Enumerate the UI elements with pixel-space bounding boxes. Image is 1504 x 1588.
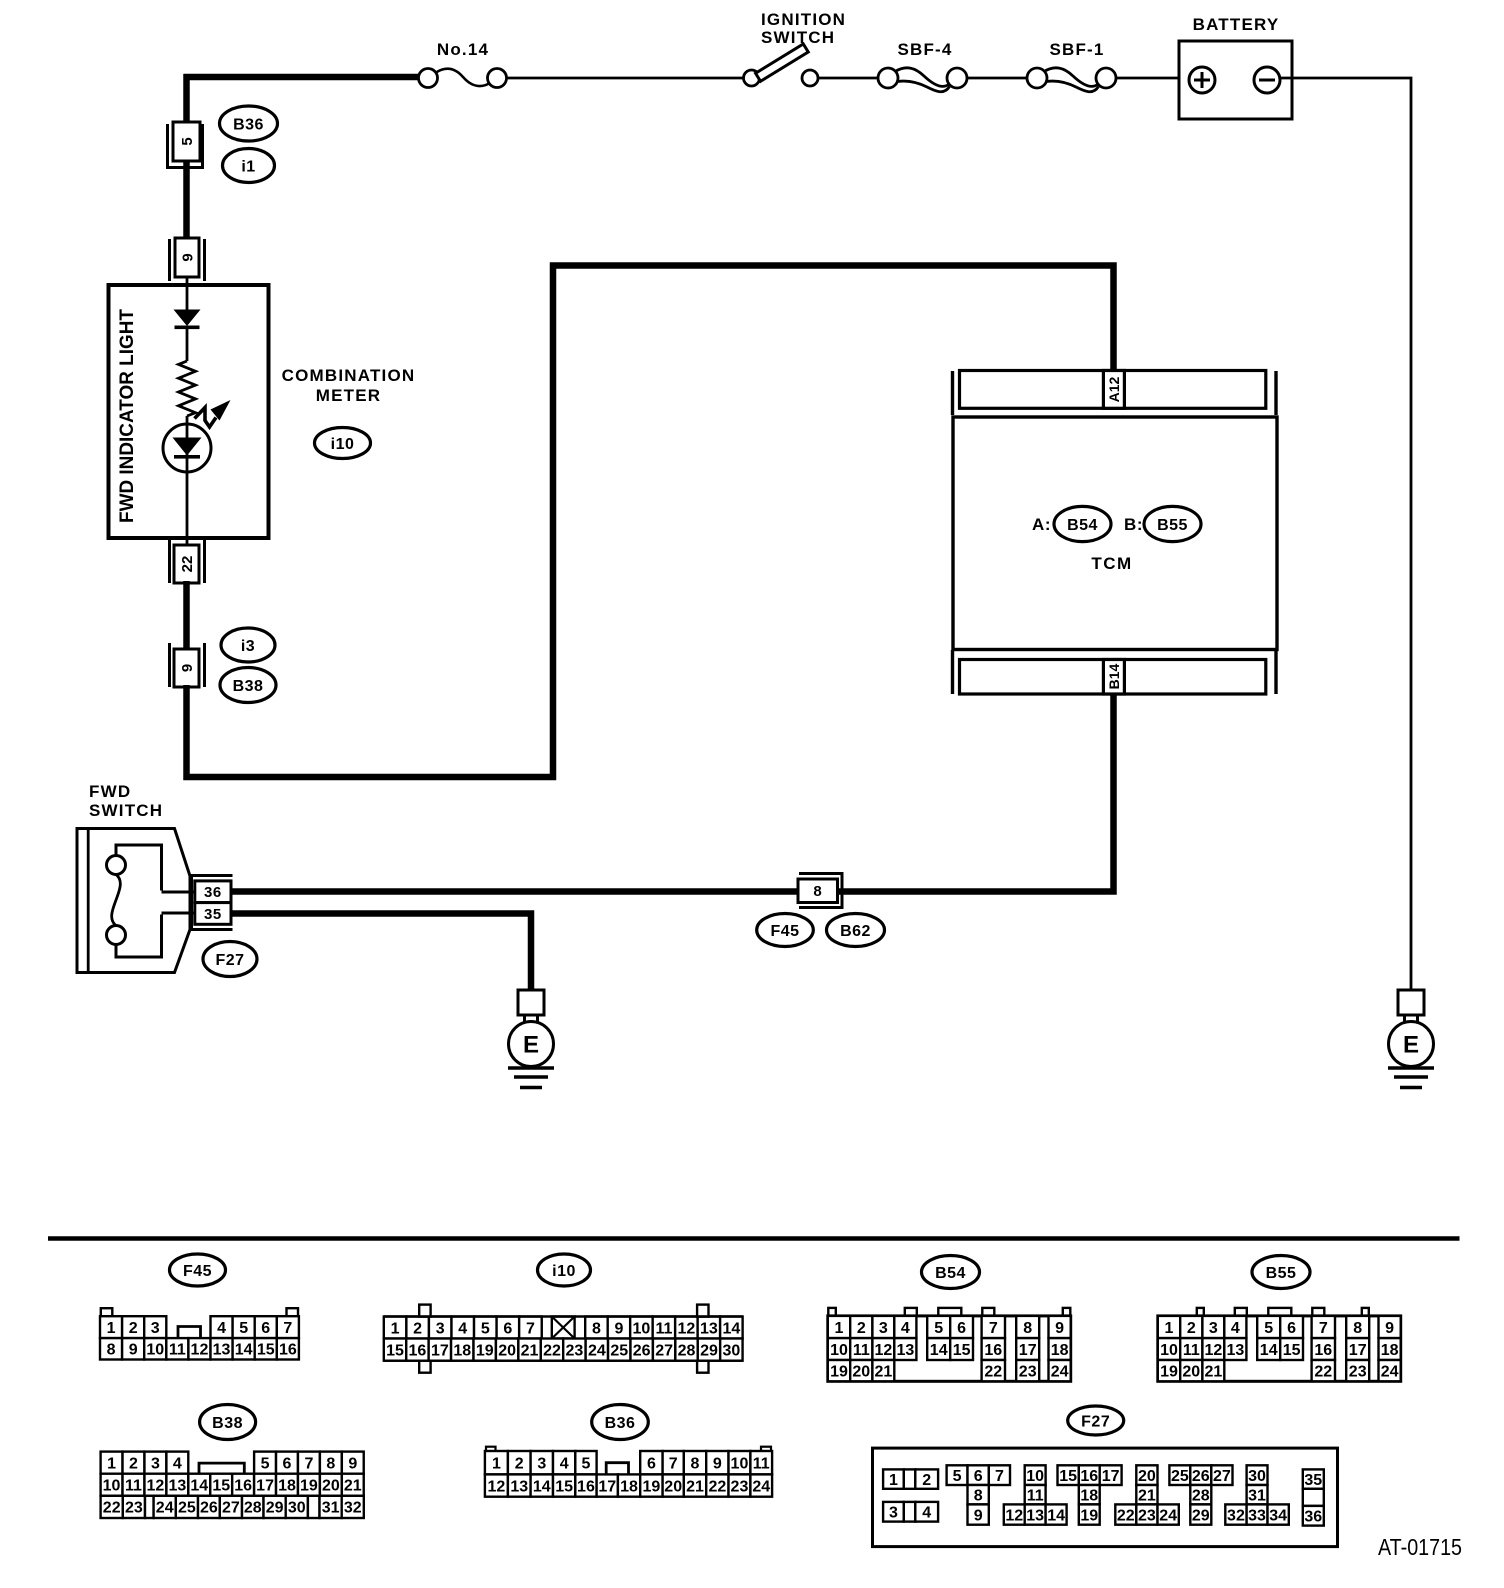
svg-text:12: 12 xyxy=(488,1478,506,1495)
connector label B36 xyxy=(220,106,278,141)
svg-text:14: 14 xyxy=(722,1320,740,1337)
svg-text:21: 21 xyxy=(344,1478,362,1495)
wire: SBF-1 to battery positive xyxy=(1116,77,1190,80)
svg-text:26: 26 xyxy=(1192,1468,1210,1485)
svg-text:12: 12 xyxy=(191,1342,209,1359)
svg-text:7: 7 xyxy=(995,1468,1004,1485)
svg-text:4: 4 xyxy=(1231,1320,1240,1337)
svg-text:16: 16 xyxy=(279,1342,297,1359)
svg-text:28: 28 xyxy=(678,1342,696,1359)
svg-text:20: 20 xyxy=(664,1478,682,1495)
svg-text:2: 2 xyxy=(129,1320,138,1337)
svg-text:COMBINATION: COMBINATION xyxy=(282,366,416,385)
svg-text:22: 22 xyxy=(543,1342,561,1359)
connector pinout B36 xyxy=(485,1447,772,1497)
svg-text:B38: B38 xyxy=(233,678,264,695)
svg-text:23: 23 xyxy=(1138,1507,1156,1524)
svg-text:15: 15 xyxy=(1283,1342,1301,1359)
svg-text:6: 6 xyxy=(283,1455,292,1472)
svg-text:20: 20 xyxy=(852,1363,870,1380)
svg-text:15: 15 xyxy=(1059,1468,1077,1485)
svg-text:18: 18 xyxy=(278,1478,296,1495)
svg-text:11: 11 xyxy=(853,1342,870,1359)
connector label B38 (pinout) xyxy=(200,1405,256,1440)
FWD switch xyxy=(77,782,195,972)
svg-text:15: 15 xyxy=(212,1478,230,1495)
svg-text:11: 11 xyxy=(753,1455,770,1472)
svg-text:29: 29 xyxy=(700,1342,718,1359)
svg-text:6: 6 xyxy=(261,1320,270,1337)
TCM box xyxy=(953,417,1277,650)
connector pinout B38 xyxy=(101,1452,364,1518)
svg-text:i3: i3 xyxy=(241,638,255,655)
svg-text:11: 11 xyxy=(125,1478,142,1495)
wire xyxy=(186,416,189,537)
svg-text:3: 3 xyxy=(879,1320,888,1337)
svg-text:3: 3 xyxy=(151,1455,160,1472)
svg-text:18: 18 xyxy=(1051,1342,1069,1359)
svg-text:4: 4 xyxy=(922,1505,931,1522)
svg-text:FWD INDICATOR LIGHT: FWD INDICATOR LIGHT xyxy=(117,309,138,523)
svg-text:A:: A: xyxy=(1032,515,1051,534)
svg-text:B62: B62 xyxy=(840,923,871,940)
svg-text:32: 32 xyxy=(344,1500,362,1517)
TCM connector strip A12 xyxy=(953,371,1277,416)
connector 9 (combination meter inlet) xyxy=(170,238,205,285)
svg-text:21: 21 xyxy=(1204,1363,1222,1380)
wire: TCM B14 to FWD switch pin 36 xyxy=(232,693,1114,892)
svg-text:FWD: FWD xyxy=(89,782,131,801)
svg-text:17: 17 xyxy=(598,1478,616,1495)
svg-text:22: 22 xyxy=(179,556,196,573)
svg-text:TCM: TCM xyxy=(1091,554,1132,573)
svg-text:8: 8 xyxy=(1023,1320,1032,1337)
svg-text:27: 27 xyxy=(655,1342,673,1359)
svg-text:F27: F27 xyxy=(215,952,244,969)
svg-text:9: 9 xyxy=(129,1342,138,1359)
svg-text:28: 28 xyxy=(244,1500,262,1517)
ground E (battery side) xyxy=(1388,990,1434,1088)
svg-text:F45: F45 xyxy=(183,1263,212,1280)
svg-text:30: 30 xyxy=(288,1500,306,1517)
svg-text:17: 17 xyxy=(1019,1342,1037,1359)
connector label i1 xyxy=(223,149,275,183)
connector 22 (meter outlet) xyxy=(170,538,205,583)
svg-text:15: 15 xyxy=(555,1478,573,1495)
connector 5 (B36 / i1 joint) xyxy=(166,122,204,169)
svg-text:16: 16 xyxy=(984,1342,1002,1359)
svg-text:18: 18 xyxy=(453,1342,471,1359)
svg-text:24: 24 xyxy=(1051,1363,1069,1380)
svg-text:10: 10 xyxy=(1160,1342,1178,1359)
wire: pin 35 to ground xyxy=(232,914,531,991)
svg-text:29: 29 xyxy=(1192,1507,1210,1524)
svg-text:11: 11 xyxy=(1183,1342,1200,1359)
svg-text:22: 22 xyxy=(1117,1507,1135,1524)
svg-text:7: 7 xyxy=(283,1320,292,1337)
svg-text:14: 14 xyxy=(235,1342,253,1359)
contact wavy link xyxy=(112,875,121,926)
svg-text:AT-01715: AT-01715 xyxy=(1378,1534,1462,1560)
connector label F27 (pinout) xyxy=(1068,1406,1124,1435)
svg-text:1: 1 xyxy=(1165,1320,1174,1337)
wire inside meter xyxy=(186,285,189,311)
svg-text:B54: B54 xyxy=(935,1265,966,1282)
svg-text:23: 23 xyxy=(566,1342,584,1359)
svg-text:27: 27 xyxy=(222,1500,240,1517)
separator line xyxy=(48,1236,1460,1241)
svg-text:10: 10 xyxy=(1026,1468,1044,1485)
fusible link SBF-1 xyxy=(1027,40,1116,92)
svg-text:15: 15 xyxy=(953,1342,971,1359)
svg-text:7: 7 xyxy=(669,1455,678,1472)
svg-text:10: 10 xyxy=(830,1342,848,1359)
svg-text:2: 2 xyxy=(515,1455,524,1472)
svg-text:3: 3 xyxy=(889,1505,898,1522)
svg-text:i10: i10 xyxy=(552,1263,576,1280)
svg-text:i1: i1 xyxy=(241,158,255,175)
svg-text:18: 18 xyxy=(1080,1487,1098,1504)
svg-text:24: 24 xyxy=(588,1342,606,1359)
svg-text:1: 1 xyxy=(889,1472,898,1489)
svg-text:E: E xyxy=(523,1032,539,1059)
svg-text:8: 8 xyxy=(1353,1320,1362,1337)
svg-text:6: 6 xyxy=(647,1455,656,1472)
svg-text:16: 16 xyxy=(1080,1468,1098,1485)
wire xyxy=(186,329,189,361)
svg-text:9: 9 xyxy=(179,664,196,672)
svg-text:19: 19 xyxy=(643,1478,661,1495)
svg-text:20: 20 xyxy=(498,1342,516,1359)
svg-text:B55: B55 xyxy=(1266,1265,1297,1282)
fuse No.14 xyxy=(419,40,507,88)
svg-text:2: 2 xyxy=(129,1455,138,1472)
svg-text:14: 14 xyxy=(190,1478,208,1495)
svg-text:7: 7 xyxy=(304,1455,313,1472)
wire: battery feed horizontal (junction to fuse No.14) xyxy=(184,74,420,81)
connector 9 (B38 / i3 joint) xyxy=(170,643,205,687)
wire: battery negative to ground xyxy=(1280,78,1411,990)
svg-text:1: 1 xyxy=(492,1455,501,1472)
svg-text:B36: B36 xyxy=(233,116,264,133)
FWD indicator lamp (LED) xyxy=(163,424,211,472)
fusible link SBF-4 xyxy=(878,40,967,92)
connector pinout B55 xyxy=(1158,1308,1401,1381)
svg-text:5: 5 xyxy=(953,1468,962,1485)
svg-text:29: 29 xyxy=(266,1500,284,1517)
svg-text:17: 17 xyxy=(431,1342,449,1359)
svg-text:1: 1 xyxy=(107,1455,116,1472)
svg-text:36: 36 xyxy=(204,884,222,901)
svg-text:18: 18 xyxy=(1381,1342,1399,1359)
svg-text:21: 21 xyxy=(686,1478,704,1495)
svg-text:6: 6 xyxy=(503,1320,512,1337)
switch output prongs xyxy=(162,891,196,894)
svg-text:31: 31 xyxy=(322,1500,340,1517)
connector 8 (F45 / B62 joint) xyxy=(798,872,844,909)
svg-text:25: 25 xyxy=(178,1500,196,1517)
wire: connector 22 to connector 9 (B38/i3) xyxy=(183,581,190,650)
svg-text:19: 19 xyxy=(300,1478,318,1495)
svg-text:16: 16 xyxy=(1314,1342,1332,1359)
svg-text:11: 11 xyxy=(169,1342,186,1359)
svg-text:8: 8 xyxy=(974,1487,983,1504)
svg-text:4: 4 xyxy=(458,1320,467,1337)
svg-text:35: 35 xyxy=(204,906,222,923)
svg-text:33: 33 xyxy=(1248,1507,1266,1524)
svg-text:25: 25 xyxy=(610,1342,628,1359)
svg-text:16: 16 xyxy=(409,1342,427,1359)
battery xyxy=(1179,15,1292,119)
connector label B36 (pinout) xyxy=(592,1405,649,1440)
svg-text:24: 24 xyxy=(1159,1507,1177,1524)
svg-text:6: 6 xyxy=(1287,1320,1296,1337)
svg-text:8: 8 xyxy=(813,883,821,900)
svg-text:19: 19 xyxy=(1160,1363,1178,1380)
svg-text:1: 1 xyxy=(107,1320,116,1337)
svg-text:13: 13 xyxy=(700,1320,718,1337)
svg-text:12: 12 xyxy=(1005,1507,1023,1524)
svg-text:6: 6 xyxy=(957,1320,966,1337)
svg-text:30: 30 xyxy=(1248,1468,1266,1485)
connector pinout i10 xyxy=(384,1305,743,1373)
diode xyxy=(174,310,201,330)
svg-text:METER: METER xyxy=(316,386,382,405)
wire: ignition switch to SBF-4 xyxy=(818,77,878,80)
connector label i10 xyxy=(315,428,371,459)
wire: SBF-4 to SBF-1 xyxy=(967,77,1027,80)
svg-text:17: 17 xyxy=(1349,1342,1367,1359)
svg-text:15: 15 xyxy=(386,1342,404,1359)
svg-text:15: 15 xyxy=(257,1342,275,1359)
connector label B62 xyxy=(827,914,885,947)
svg-text:1: 1 xyxy=(391,1320,400,1337)
svg-text:8: 8 xyxy=(326,1455,335,1472)
svg-text:3: 3 xyxy=(537,1455,546,1472)
svg-text:31: 31 xyxy=(1248,1487,1266,1504)
svg-text:7: 7 xyxy=(526,1320,535,1337)
wire: meter loop to TCM A12 xyxy=(187,266,1114,778)
wire: connector 5 to connector 9 xyxy=(183,161,190,239)
svg-text:10: 10 xyxy=(103,1478,121,1495)
wire: vertical drop to connector 5 xyxy=(183,74,190,123)
svg-text:26: 26 xyxy=(633,1342,651,1359)
svg-text:10: 10 xyxy=(633,1320,651,1337)
combination meter box xyxy=(109,285,269,538)
svg-text:16: 16 xyxy=(577,1478,595,1495)
svg-text:5: 5 xyxy=(179,137,196,145)
svg-text:13: 13 xyxy=(213,1342,231,1359)
svg-text:25: 25 xyxy=(1171,1468,1189,1485)
svg-text:5: 5 xyxy=(1264,1320,1273,1337)
svg-text:12: 12 xyxy=(874,1342,892,1359)
svg-text:F27: F27 xyxy=(1081,1413,1110,1430)
svg-text:18: 18 xyxy=(620,1478,638,1495)
svg-text:E: E xyxy=(1403,1032,1419,1059)
svg-text:10: 10 xyxy=(146,1342,164,1359)
connector pinout F27 xyxy=(873,1448,1338,1547)
svg-text:B36: B36 xyxy=(605,1415,636,1432)
connector label F45 xyxy=(757,914,814,947)
svg-text:13: 13 xyxy=(896,1342,914,1359)
connector label B55 (pinout) xyxy=(1252,1256,1310,1289)
ground E (FWD switch side) xyxy=(508,990,554,1088)
wire: fuse No.14 to ignition switch xyxy=(507,77,744,80)
svg-text:SWITCH: SWITCH xyxy=(761,28,835,47)
svg-text:11: 11 xyxy=(1027,1487,1044,1504)
svg-text:19: 19 xyxy=(476,1342,494,1359)
svg-text:22: 22 xyxy=(984,1363,1002,1380)
svg-text:3: 3 xyxy=(436,1320,445,1337)
svg-text:B38: B38 xyxy=(212,1415,243,1432)
connector label B38 xyxy=(220,668,276,703)
svg-text:4: 4 xyxy=(173,1455,182,1472)
svg-text:23: 23 xyxy=(125,1500,143,1517)
svg-text:24: 24 xyxy=(752,1478,770,1495)
svg-text:14: 14 xyxy=(1260,1342,1278,1359)
connector pinout F45 xyxy=(100,1308,299,1359)
svg-text:3: 3 xyxy=(151,1320,160,1337)
svg-text:7: 7 xyxy=(1319,1320,1328,1337)
svg-text:22: 22 xyxy=(708,1478,726,1495)
svg-text:21: 21 xyxy=(521,1342,539,1359)
svg-text:3: 3 xyxy=(1209,1320,1218,1337)
svg-text:17: 17 xyxy=(256,1478,274,1495)
ignition switch xyxy=(744,10,847,86)
svg-text:2: 2 xyxy=(413,1320,422,1337)
contact circle upper xyxy=(107,856,126,875)
svg-text:13: 13 xyxy=(168,1478,186,1495)
svg-text:No.14: No.14 xyxy=(437,40,489,59)
svg-text:5: 5 xyxy=(261,1455,270,1472)
svg-text:20: 20 xyxy=(1138,1468,1156,1485)
svg-text:23: 23 xyxy=(731,1478,749,1495)
svg-text:10: 10 xyxy=(731,1455,749,1472)
svg-text:B14: B14 xyxy=(1106,663,1122,689)
svg-text:B:: B: xyxy=(1124,515,1143,534)
connector label F45 (pinout) xyxy=(170,1254,226,1286)
svg-text:F45: F45 xyxy=(770,923,799,940)
svg-text:8: 8 xyxy=(691,1455,700,1472)
svg-text:SWITCH: SWITCH xyxy=(89,801,163,820)
svg-text:5: 5 xyxy=(934,1320,943,1337)
connector pinout B54 xyxy=(828,1308,1071,1381)
svg-text:9: 9 xyxy=(1055,1320,1064,1337)
connector label F27 xyxy=(203,942,257,977)
svg-text:14: 14 xyxy=(930,1342,948,1359)
svg-text:34: 34 xyxy=(1269,1507,1287,1524)
svg-text:9: 9 xyxy=(713,1455,722,1472)
svg-text:4: 4 xyxy=(217,1320,226,1337)
svg-text:B55: B55 xyxy=(1157,517,1188,534)
resistor xyxy=(179,361,196,416)
svg-text:21: 21 xyxy=(1138,1487,1156,1504)
svg-text:12: 12 xyxy=(677,1320,695,1337)
svg-text:1: 1 xyxy=(835,1320,844,1337)
svg-text:24: 24 xyxy=(156,1500,174,1517)
svg-text:SBF-4: SBF-4 xyxy=(897,40,952,59)
svg-text:24: 24 xyxy=(1381,1363,1399,1380)
svg-text:22: 22 xyxy=(103,1500,121,1517)
svg-text:16: 16 xyxy=(234,1478,252,1495)
svg-text:19: 19 xyxy=(830,1363,848,1380)
svg-text:23: 23 xyxy=(1019,1363,1037,1380)
connector label i10 (pinout) xyxy=(538,1254,591,1286)
svg-text:BATTERY: BATTERY xyxy=(1193,15,1280,34)
svg-text:SBF-1: SBF-1 xyxy=(1049,40,1104,59)
battery negative terminal xyxy=(1254,67,1280,93)
svg-text:5: 5 xyxy=(239,1320,248,1337)
svg-text:19: 19 xyxy=(1080,1507,1098,1524)
svg-text:12: 12 xyxy=(1204,1342,1222,1359)
svg-text:4: 4 xyxy=(560,1455,569,1472)
svg-text:9: 9 xyxy=(348,1455,357,1472)
svg-text:22: 22 xyxy=(1314,1363,1332,1380)
svg-text:5: 5 xyxy=(481,1320,490,1337)
svg-text:17: 17 xyxy=(1102,1468,1120,1485)
lamp arrow xyxy=(195,400,231,427)
switch contact housing xyxy=(116,845,162,957)
TCM connector strip B14 xyxy=(953,650,1277,694)
svg-text:32: 32 xyxy=(1227,1507,1245,1524)
connector label i3 xyxy=(221,628,275,662)
svg-text:11: 11 xyxy=(655,1320,672,1337)
svg-text:20: 20 xyxy=(1182,1363,1200,1380)
svg-text:13: 13 xyxy=(1226,1342,1244,1359)
svg-text:30: 30 xyxy=(722,1342,740,1359)
svg-text:9: 9 xyxy=(614,1320,623,1337)
connector pins 36 / 35 xyxy=(190,874,233,931)
svg-text:8: 8 xyxy=(592,1320,601,1337)
svg-text:23: 23 xyxy=(1349,1363,1367,1380)
svg-text:27: 27 xyxy=(1213,1468,1231,1485)
svg-text:13: 13 xyxy=(510,1478,528,1495)
svg-text:12: 12 xyxy=(147,1478,165,1495)
svg-text:36: 36 xyxy=(1304,1509,1322,1526)
contact circle lower xyxy=(107,926,126,945)
svg-text:2: 2 xyxy=(857,1320,866,1337)
svg-text:21: 21 xyxy=(874,1363,892,1380)
battery positive terminal xyxy=(1189,67,1215,93)
svg-text:IGNITION: IGNITION xyxy=(761,10,846,29)
svg-text:7: 7 xyxy=(989,1320,998,1337)
svg-text:2: 2 xyxy=(922,1472,931,1489)
svg-text:35: 35 xyxy=(1304,1472,1322,1489)
svg-text:i10: i10 xyxy=(331,436,355,453)
svg-text:26: 26 xyxy=(200,1500,218,1517)
svg-text:14: 14 xyxy=(533,1478,551,1495)
svg-text:8: 8 xyxy=(107,1342,116,1359)
svg-text:20: 20 xyxy=(322,1478,340,1495)
svg-text:14: 14 xyxy=(1047,1507,1065,1524)
svg-text:6: 6 xyxy=(974,1468,983,1485)
svg-text:9: 9 xyxy=(974,1507,983,1524)
svg-text:B54: B54 xyxy=(1067,517,1098,534)
svg-text:5: 5 xyxy=(581,1455,590,1472)
svg-text:13: 13 xyxy=(1026,1507,1044,1524)
svg-text:4: 4 xyxy=(901,1320,910,1337)
svg-text:2: 2 xyxy=(1187,1320,1196,1337)
svg-text:9: 9 xyxy=(179,253,196,261)
svg-text:A12: A12 xyxy=(1106,376,1122,402)
connector label B54 (pinout) xyxy=(922,1256,980,1289)
svg-text:28: 28 xyxy=(1192,1487,1210,1504)
svg-text:9: 9 xyxy=(1385,1320,1394,1337)
